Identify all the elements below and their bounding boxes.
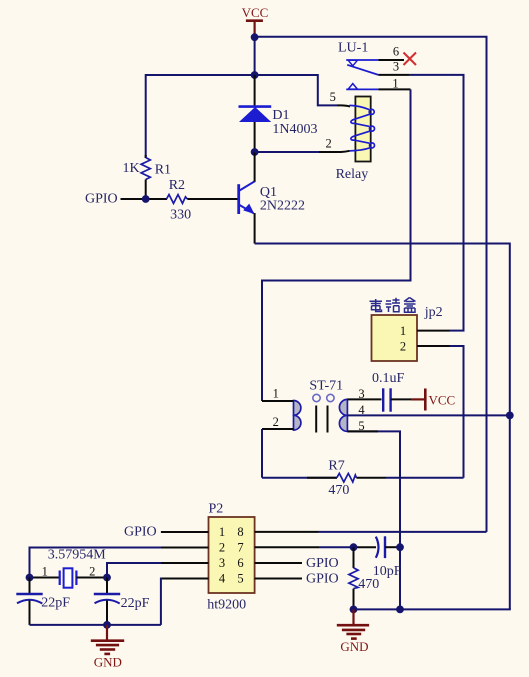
svg-text:6: 6 [237,556,243,570]
resistor 470 (vertical, bottom) [349,547,358,609]
wire R2 to Q1 base [187,198,238,200]
svg-text:3: 3 [393,60,399,74]
transistor Q1 2N2222 [239,152,256,244]
junction 10pF right node [396,543,404,551]
P2 pin 1 wire [161,531,209,533]
wire bottom cap rail [30,624,161,626]
wire VCC down to node of D1/R1 rail [254,37,256,76]
svg-text:470: 470 [358,577,379,592]
wire bottom GND rail [354,608,511,610]
crystal pin2 wire [76,577,107,579]
pin 6 wire (black) [378,59,404,61]
svg-text:1K: 1K [123,161,140,176]
svg-text:4: 4 [219,572,226,586]
xfmr pin 2 wire [262,428,294,430]
junction D1 top node [251,71,259,79]
wire black pin2 stub of relay coil [319,151,350,152]
P2 pin numbers right column [237,525,243,586]
junction D1 bottom / relay coil pin2 / Q1 collector node [251,148,259,156]
svg-text:1: 1 [400,324,406,338]
crystal pin1 wire [30,577,60,579]
svg-text:22pF: 22pF [121,596,150,611]
svg-text:ST-71: ST-71 [309,378,343,393]
svg-text:GND: GND [340,639,368,654]
svg-text:GPIO: GPIO [85,192,118,207]
junction crystal pin 2 / 22pF [103,574,111,582]
ground GND (left) [91,625,124,670]
svg-text:330: 330 [170,208,191,223]
svg-text:GPIO: GPIO [306,556,339,571]
resistor R1 1K (vertical) [141,155,150,199]
transformer ST-71 primary winding (left) [294,401,301,431]
junction pin4/right vertical [506,412,514,420]
svg-text:1: 1 [219,525,225,539]
relay coil winding spiral [350,105,375,150]
svg-text:R2: R2 [169,178,185,193]
xfmr pin 3 wire to cap [347,398,381,400]
svg-text:2N2222: 2N2222 [260,199,305,214]
svg-text:7: 7 [237,541,243,555]
xfmr pin 1 wire [262,400,294,402]
wire cap to VCC port [391,398,411,400]
svg-text:ht9200: ht9200 [207,598,246,613]
wire black pin5 stub of relay coil [337,105,350,106]
svg-text:3: 3 [219,556,225,570]
P2 pin 2 wire to crystal pin1 [161,547,209,549]
wire Q1 emitter rail right and down right edge to GND rail [255,244,510,610]
P2 pin numbers left column [219,525,226,586]
capacitor 10pF [357,536,400,558]
xfmr pin 5 wire then down to bottom [347,431,400,609]
wire black stub D1 cathode up [254,75,256,107]
relay lever to pin 3 [347,65,378,75]
crystal Y1 3.57954M [60,568,77,587]
P2 pin 3 wire to crystal pin2 [161,562,209,564]
wire horizontal rail y=75 from R1 top to relay pin5 drop [146,75,337,158]
svg-text:P2: P2 [209,502,224,517]
svg-text:VCC: VCC [242,5,269,20]
wire relay coil pin2 to D1 node [255,151,319,153]
svg-text:2: 2 [219,541,225,555]
svg-text:D1: D1 [272,108,289,123]
junction GND rail left [350,606,358,614]
svg-text:2: 2 [273,415,279,429]
wire R7 rail [262,477,337,479]
svg-text:R7: R7 [328,458,344,473]
svg-text:0.1uF: 0.1uF [372,371,405,386]
svg-text:jp2: jp2 [424,305,443,320]
connector P2 body (ht9200) [209,517,255,593]
svg-text:Relay: Relay [336,167,369,182]
ground GND (right) [337,609,369,654]
pin 3 wire black then down to jp2 pin1 [378,74,409,76]
wire jp2 pin1 to vertical [450,330,465,332]
relay contact fixed segment pin6 row [346,59,378,61]
svg-text:470: 470 [328,483,349,498]
junction GND rail mid [396,606,404,614]
junction R1 bottom / GPIO node [142,195,150,203]
svg-text:3.57954M: 3.57954M [48,548,106,563]
junction crystal pin 1 / 22pF [26,574,34,582]
relay contact arrow (bottom, pointing up) [348,84,357,90]
xfmr pin 4 wire to right vertical [347,414,509,416]
relay contact segment pin1 row [346,88,378,90]
relay contact arrow (top, pointing down) [348,60,357,66]
junction left GND node [103,621,111,629]
resistor R2 330 (horizontal) [167,195,188,204]
transformer polarity dots [313,394,334,401]
connector jp2 body [372,315,418,361]
P2 pin 5 wire [255,578,302,580]
pin 1 wire black [378,88,410,90]
label 電話盒 (hand-drawn CJK strokes) [370,298,416,313]
wire VCC rail right then down to P2 pin 8 [255,37,487,532]
jp2 pin 2 wire [417,345,450,347]
svg-text:GND: GND [94,655,122,670]
junction at VCC stem [251,33,259,41]
P2 pin 8 wire to VCC vertical [255,531,319,533]
wire R7 to jp2 pin2 vertical [386,477,464,479]
svg-text:R1: R1 [155,163,171,178]
svg-text:5: 5 [237,572,243,586]
svg-text:8: 8 [237,525,243,539]
wire xfmr pin2 down to R7 rail [261,429,263,478]
P2 pin 6 wire [255,562,302,564]
jp2 pin 1 wire [417,330,450,332]
wire relay pin1 down, left, down to transformer pin1 [262,89,411,401]
resistor R7 470 [307,473,386,482]
svg-text:1: 1 [273,386,279,400]
svg-text:LU-1: LU-1 [338,41,368,56]
P2 pin 4 wire down to cap rail [161,578,209,580]
capacitor 0.1uF [383,388,390,411]
svg-text:GPIO: GPIO [306,572,339,587]
svg-text:GPIO: GPIO [124,525,157,540]
capacitor 22pF (right) [94,578,120,625]
P2 pin 7 wire to 10pF [255,546,319,548]
wire jp2 pin2 right and down to R7 rail [450,346,464,478]
junction 10pF left node [350,543,358,551]
xfmr pin 5 black stub [347,430,378,432]
svg-text:1: 1 [42,564,48,578]
svg-text:2: 2 [400,339,406,353]
wire GPIO to R2 [121,198,168,200]
svg-text:5: 5 [330,90,336,104]
svg-text:1N4003: 1N4003 [272,122,317,137]
svg-text:22pF: 22pF [41,596,70,611]
diode D1 1N4003 [239,107,272,152]
svg-text:VCC: VCC [429,392,456,407]
svg-text:1: 1 [392,76,398,90]
relay coil body (yellow) [355,97,370,162]
transformer ST-71 secondary winding (right) [339,399,347,431]
power port VCC (right) [411,389,455,411]
svg-text:6: 6 [393,44,399,58]
svg-text:2: 2 [89,564,95,578]
transformer core [316,406,327,433]
power port VCC (top) [242,5,269,36]
capacitor 22pF (left) [16,578,42,625]
svg-text:2: 2 [325,136,331,150]
no-connect X on pin 6 [404,53,417,66]
wire pin3 to jp2 pin 1 [409,75,464,331]
